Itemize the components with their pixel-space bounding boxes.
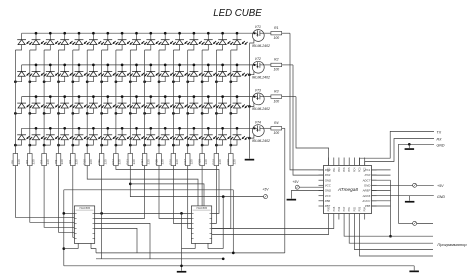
svg-text:R6: R6 <box>25 160 29 164</box>
svg-text:220: 220 <box>32 159 36 164</box>
svg-text:GND: GND <box>364 183 370 187</box>
svg-text:R16: R16 <box>169 159 173 165</box>
svg-text:ADC7: ADC7 <box>362 178 371 182</box>
svg-text:R18: R18 <box>197 159 201 165</box>
svg-text:R4: R4 <box>274 121 278 125</box>
svg-text:PB0: PB0 <box>328 206 331 211</box>
svg-text:PC2: PC2 <box>364 167 367 172</box>
svg-text:220: 220 <box>75 159 79 164</box>
svg-text:PD6: PD6 <box>338 206 341 211</box>
svg-text:+5V: +5V <box>292 180 299 184</box>
svg-text:220: 220 <box>204 159 208 164</box>
svg-text:ADC6: ADC6 <box>362 194 371 198</box>
svg-text:R7: R7 <box>39 160 43 164</box>
svg-text:PC0: PC0 <box>365 173 371 177</box>
svg-text:74HC595: 74HC595 <box>79 206 91 210</box>
svg-text:PD4: PD4 <box>325 173 331 177</box>
svg-text:VT3: VT3 <box>255 89 261 93</box>
svg-text:220: 220 <box>17 159 21 164</box>
svg-text:Программатор: Программатор <box>437 242 467 247</box>
svg-text:220: 220 <box>218 159 222 164</box>
svg-text:PB3: PB3 <box>359 206 362 211</box>
svg-text:GND: GND <box>437 195 445 199</box>
svg-text:100: 100 <box>273 99 279 103</box>
svg-text:IRLML2402: IRLML2402 <box>252 44 270 48</box>
svg-text:PB2: PB2 <box>353 206 356 211</box>
svg-text:PB4: PB4 <box>364 206 367 211</box>
svg-text:RX: RX <box>437 138 443 142</box>
svg-text:74HC595: 74HC595 <box>196 206 208 210</box>
svg-text:IRLML2402: IRLML2402 <box>252 139 270 143</box>
svg-text:220: 220 <box>132 159 136 164</box>
svg-text:PB1: PB1 <box>348 206 351 211</box>
svg-text:100: 100 <box>273 68 279 72</box>
svg-text:220: 220 <box>60 159 64 164</box>
svg-text:R3: R3 <box>274 89 278 93</box>
svg-text:PC3: PC3 <box>359 167 362 172</box>
svg-text:GND: GND <box>325 189 331 193</box>
svg-text:AVCC: AVCC <box>361 199 371 203</box>
svg-text:220: 220 <box>175 159 179 164</box>
svg-text:220: 220 <box>189 159 193 164</box>
svg-text:220: 220 <box>46 159 50 164</box>
svg-text:PD5: PD5 <box>333 206 336 211</box>
svg-text:PD0: PD0 <box>338 167 341 172</box>
svg-text:VT1: VT1 <box>255 25 261 29</box>
svg-text:PD2: PD2 <box>328 167 331 172</box>
svg-text:IRLML2402: IRLML2402 <box>252 76 270 80</box>
svg-text:R9: R9 <box>68 160 72 164</box>
svg-text:220: 220 <box>118 159 122 164</box>
svg-text:R2: R2 <box>274 58 278 62</box>
svg-text:R11: R11 <box>97 159 101 165</box>
svg-text:PC5: PC5 <box>348 167 351 172</box>
svg-text:GND: GND <box>437 143 445 147</box>
svg-text:R20: R20 <box>226 159 230 165</box>
svg-text:IRLML2402: IRLML2402 <box>252 107 270 111</box>
svg-text:TX: TX <box>437 130 442 134</box>
svg-text:PB6: PB6 <box>325 199 331 203</box>
svg-text:220: 220 <box>146 159 150 164</box>
svg-text:100: 100 <box>273 131 279 135</box>
svg-text:GND: GND <box>325 178 331 182</box>
svg-text:VT2: VT2 <box>255 57 261 61</box>
svg-text:100: 100 <box>273 36 279 40</box>
svg-text:220: 220 <box>233 159 237 164</box>
svg-text:R5: R5 <box>11 160 15 164</box>
svg-text:R1: R1 <box>274 26 278 30</box>
svg-text:VCC: VCC <box>325 194 332 198</box>
svg-text:R19: R19 <box>212 159 216 165</box>
svg-text:R15: R15 <box>154 159 158 165</box>
svg-text:PC4: PC4 <box>353 167 356 172</box>
svg-text:PD7: PD7 <box>343 206 346 211</box>
svg-text:R12: R12 <box>111 159 115 165</box>
svg-text:220: 220 <box>161 159 165 164</box>
svg-text:PD1: PD1 <box>333 167 336 172</box>
svg-text:R8: R8 <box>54 160 58 164</box>
svg-text:PC6: PC6 <box>343 167 346 172</box>
svg-text:+5V: +5V <box>262 188 269 192</box>
svg-text:R14: R14 <box>140 159 144 165</box>
svg-text:220: 220 <box>103 159 107 164</box>
svg-text:R10: R10 <box>83 159 87 165</box>
svg-text:VCC: VCC <box>325 183 332 187</box>
svg-text:R17: R17 <box>183 159 187 165</box>
svg-text:ATmega8: ATmega8 <box>337 187 358 192</box>
svg-text:VT4: VT4 <box>255 120 261 124</box>
svg-text:220: 220 <box>89 159 93 164</box>
svg-text:R13: R13 <box>126 159 130 165</box>
svg-text:LED CUBE: LED CUBE <box>213 8 262 19</box>
svg-text:+5V: +5V <box>437 184 444 188</box>
svg-text:AREF: AREF <box>362 189 371 193</box>
